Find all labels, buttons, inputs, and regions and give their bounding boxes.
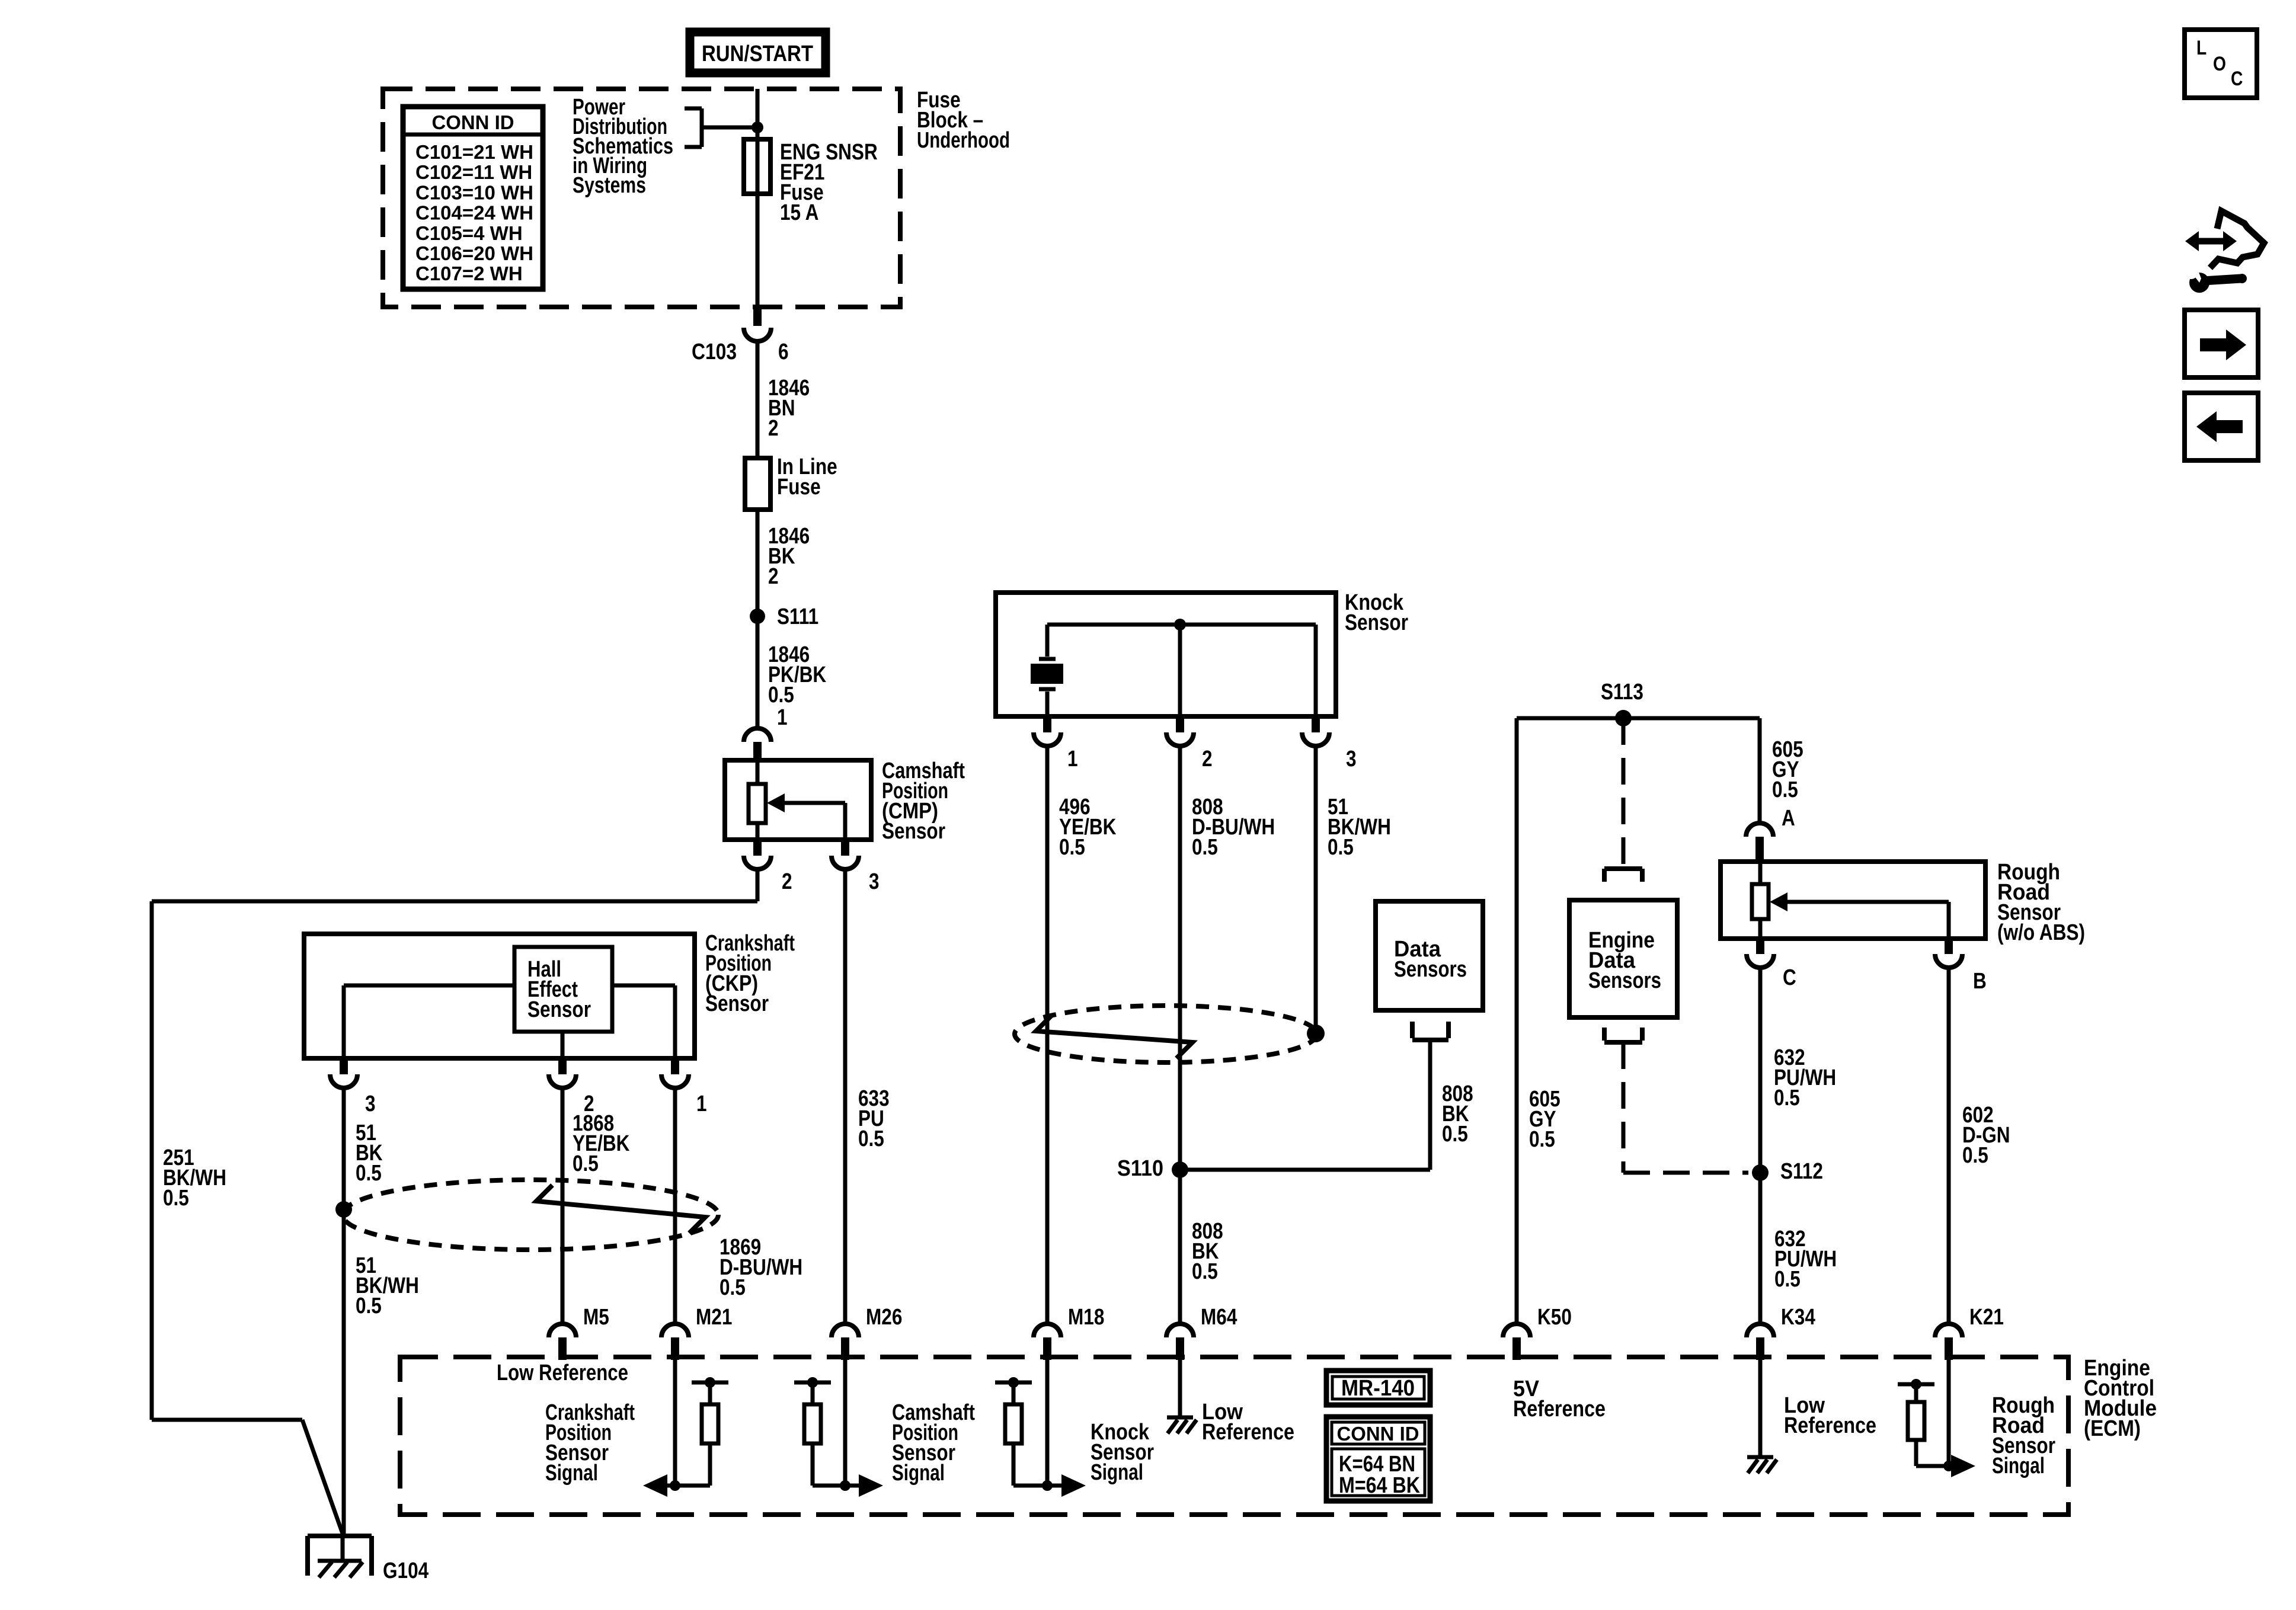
rough road wiper arrow	[1770, 892, 1787, 911]
svg-text:(ECM): (ECM)	[2084, 1416, 2141, 1441]
knock sensor internal bus	[1047, 623, 1316, 627]
CMP internal resistor	[756, 760, 760, 784]
service icon double arrow	[2198, 238, 2224, 245]
svg-text:Reference: Reference	[1202, 1420, 1294, 1445]
M64 low reference ground	[1178, 1360, 1182, 1416]
next-page arrow box	[2185, 310, 2258, 377]
svg-text:2: 2	[768, 416, 779, 441]
svg-text:2: 2	[782, 869, 792, 894]
dashed run to S112	[1622, 1042, 1626, 1173]
svg-text:K50: K50	[1537, 1305, 1572, 1330]
svg-text:M26: M26	[866, 1305, 902, 1330]
svg-text:2: 2	[768, 564, 779, 589]
connector rough road pin B	[1945, 939, 1953, 954]
svg-text:RUN/START: RUN/START	[702, 41, 813, 66]
svg-text:0.5: 0.5	[1774, 1267, 1801, 1292]
connector CMP pin 1	[744, 728, 771, 742]
svg-text:K21: K21	[1969, 1305, 2004, 1330]
svg-text:Signal: Signal	[1091, 1460, 1143, 1485]
twisted pair ellipse (CKP wires)	[343, 1180, 718, 1250]
hall effect sensor box	[514, 947, 612, 1032]
connector CKP pin 2	[558, 1058, 567, 1074]
svg-text:CONN ID: CONN ID	[432, 111, 514, 133]
fuse ENG SNSR EF21 15A	[744, 139, 770, 194]
connector bracket below engine data sensors box	[1602, 1028, 1607, 1041]
svg-text:Reference: Reference	[1784, 1413, 1876, 1438]
wire 602 D-GN (B to K21)	[1947, 968, 1951, 1324]
connector rough road pin C	[1756, 939, 1764, 954]
wire 632 PU/WH (C to K34)	[1758, 968, 1763, 1324]
svg-text:0.5: 0.5	[1772, 777, 1798, 802]
svg-text:3: 3	[365, 1092, 376, 1116]
twist symbol (CKP)	[536, 1185, 705, 1233]
svg-text:0.5: 0.5	[1192, 1259, 1218, 1284]
piezo element (knock sensor)	[1039, 657, 1056, 661]
service icon wrench	[2189, 273, 2209, 293]
CONN ID table (fuse block)	[403, 107, 543, 289]
svg-text:C101=21 WH: C101=21 WH	[415, 141, 533, 163]
svg-text:CONN ID: CONN ID	[1337, 1423, 1419, 1445]
node: junction dot on feed wire	[752, 121, 763, 133]
svg-text:Sensors: Sensors	[1588, 968, 1661, 993]
svg-text:2: 2	[1202, 747, 1213, 772]
svg-text:Singal: Singal	[1992, 1454, 2045, 1478]
crankshaft position sensor box	[304, 934, 695, 1058]
svg-text:0.5: 0.5	[1529, 1127, 1555, 1152]
svg-text:C107=2 WH: C107=2 WH	[415, 263, 523, 284]
svg-text:C103: C103	[692, 340, 737, 364]
svg-text:M21: M21	[696, 1305, 732, 1330]
svg-text:0.5: 0.5	[356, 1161, 382, 1186]
camshaft signal arrow	[843, 1360, 848, 1486]
svg-text:Low Reference: Low Reference	[497, 1361, 628, 1385]
wire S110 to data sensors	[1180, 1168, 1430, 1172]
svg-text:0.5: 0.5	[1962, 1143, 1988, 1168]
ECM CONN ID box	[1326, 1417, 1430, 1501]
svg-text:0.5: 0.5	[356, 1294, 382, 1318]
svg-text:Signal: Signal	[545, 1461, 598, 1486]
crankshaft signal pull-up resistor	[705, 1377, 715, 1388]
svg-text:C106=20 WH: C106=20 WH	[415, 242, 533, 264]
CMP internal wiper arrow	[767, 793, 785, 812]
crankshaft signal arrow	[673, 1360, 677, 1486]
fuse block dashed box (Fuse Block - Underhood)	[383, 89, 900, 307]
svg-text:Sensor: Sensor	[1345, 610, 1408, 635]
svg-text:0.5: 0.5	[573, 1151, 599, 1176]
svg-text:B: B	[1973, 969, 1987, 994]
svg-text:M18: M18	[1068, 1305, 1104, 1330]
wire 5V reference bus (S113)	[1517, 716, 1760, 721]
svg-text:M64: M64	[1201, 1305, 1237, 1330]
connector ECM pin M5	[549, 1324, 576, 1337]
wire 496 YE/BK (knock pin1 to M18)	[1045, 746, 1050, 1324]
camshaft position sensor box	[725, 760, 871, 840]
svg-text:M=64 BK: M=64 BK	[1339, 1473, 1420, 1498]
svg-text:3: 3	[1346, 747, 1357, 772]
svg-text:C102=11 WH: C102=11 WH	[415, 161, 532, 183]
rough road signal pull-up resistor	[1911, 1379, 1921, 1390]
connector ECM pin K50	[1503, 1324, 1530, 1337]
svg-text:S112: S112	[1780, 1159, 1823, 1184]
svg-text:S113: S113	[1601, 680, 1643, 705]
connector ECM pin M18	[1034, 1324, 1061, 1337]
svg-text:Sensor: Sensor	[705, 991, 769, 1016]
LOC legend box	[2185, 30, 2257, 98]
svg-text:0.5: 0.5	[1442, 1122, 1468, 1147]
svg-text:0.5: 0.5	[858, 1126, 884, 1151]
twist symbol (knock)	[1036, 1015, 1192, 1058]
svg-text:0.5: 0.5	[1059, 835, 1085, 860]
connector ECM pin M26	[832, 1324, 859, 1337]
reference bracket to Power Distribution Schematics	[685, 107, 702, 111]
rough road signal arrow	[1947, 1360, 1951, 1466]
svg-text:Fuse: Fuse	[777, 475, 821, 500]
svg-text:1: 1	[1067, 747, 1078, 772]
svg-text:M5: M5	[583, 1305, 609, 1330]
svg-text:15 A: 15 A	[780, 200, 818, 225]
service icon outline	[2210, 211, 2264, 268]
svg-text:0.5: 0.5	[1774, 1086, 1800, 1110]
connector bracket above engine data sensors box	[1604, 866, 1642, 871]
svg-text:O: O	[2213, 53, 2226, 75]
connector CMP pin 2	[753, 840, 762, 856]
prev-page arrow box	[2185, 393, 2258, 460]
svg-text:S110: S110	[1117, 1156, 1163, 1181]
wire 51 BK (CKP pin3 down)	[342, 1088, 346, 1534]
connector knock pin 3	[1312, 716, 1320, 732]
svg-text:A: A	[1782, 806, 1795, 831]
connector knock pin 1	[1043, 716, 1051, 732]
rough road sensor box	[1721, 862, 1985, 939]
svg-text:1: 1	[777, 705, 788, 730]
svg-text:Underhood: Underhood	[917, 128, 1010, 153]
connector knock pin 2	[1176, 716, 1184, 732]
CKP internal wires	[344, 984, 514, 988]
data sensors box	[1376, 901, 1483, 1010]
node: shield tie dot	[1307, 1025, 1325, 1042]
ground G104 bracket	[308, 1534, 372, 1538]
K34 low reference ground	[1758, 1360, 1763, 1456]
rough road internal resistor	[1758, 862, 1763, 884]
svg-text:C: C	[1783, 965, 1796, 990]
splice S111	[750, 609, 765, 624]
connector rough road pin A	[1746, 823, 1773, 837]
svg-text:0.5: 0.5	[720, 1275, 746, 1300]
knock signal pull-up resistor	[1008, 1377, 1019, 1388]
node: splice dot on ground wire	[335, 1201, 352, 1218]
svg-text:6: 6	[778, 340, 789, 364]
wire CMP pin2 ground run (to G104)	[756, 869, 760, 901]
svg-text:C104=24 WH: C104=24 WH	[415, 202, 533, 224]
svg-text:G104: G104	[383, 1558, 428, 1583]
svg-text:Sensor: Sensor	[882, 819, 945, 844]
connector CMP pin 3	[841, 840, 849, 856]
engine control module dashed box	[400, 1357, 2068, 1515]
svg-text:1: 1	[696, 1092, 707, 1116]
svg-text:Sensors: Sensors	[1394, 957, 1467, 982]
wire: RUN/START feed down through fuse block	[756, 89, 760, 307]
svg-text:Sensor: Sensor	[527, 997, 591, 1022]
connector C103 pin 6	[753, 307, 762, 326]
connector CKP pin 1	[671, 1058, 679, 1074]
splice S113	[1615, 710, 1632, 726]
svg-text:3: 3	[869, 869, 880, 894]
MR-140 box	[1326, 1371, 1430, 1405]
connector ECM pin K34	[1747, 1324, 1774, 1337]
svg-text:(w/o ABS): (w/o ABS)	[1997, 920, 2085, 945]
wire 633 PU (CMP pin3 to M26)	[843, 869, 848, 1324]
wire 808 D-BU/WH (knock pin2 to M64)	[1178, 746, 1182, 1324]
svg-text:L: L	[2196, 37, 2207, 59]
wire 1846 BN 2	[756, 341, 760, 458]
splice S112	[1752, 1164, 1769, 1181]
svg-text:0.5: 0.5	[163, 1186, 189, 1211]
svg-text:MR-140: MR-140	[1341, 1376, 1415, 1401]
knock sensor box	[996, 593, 1336, 716]
connector CKP pin 3	[340, 1058, 348, 1074]
svg-text:0.5: 0.5	[1328, 835, 1354, 860]
in-line fuse	[745, 458, 770, 510]
svg-text:0.5: 0.5	[768, 683, 794, 708]
svg-text:Signal: Signal	[892, 1461, 945, 1486]
wire 1869 D-BU/WH (CKP pin1 to M21)	[673, 1088, 677, 1324]
svg-text:K34: K34	[1781, 1305, 1815, 1330]
connector ECM pin M21	[661, 1324, 689, 1337]
wire 605 GY (to rough road A)	[1758, 718, 1762, 823]
svg-text:C: C	[2231, 68, 2243, 90]
svg-text:0.5: 0.5	[1192, 835, 1218, 860]
shield ellipse (knock wires)	[1015, 1006, 1317, 1062]
knock signal arrow	[1045, 1360, 1050, 1486]
svg-text:Systems: Systems	[573, 173, 646, 198]
wire 51 BK/WH shield drain (knock pin3)	[1314, 746, 1318, 1030]
dashed tap to engine data sensors	[1622, 718, 1626, 869]
wire 605 GY (to K50)	[1515, 718, 1519, 1324]
splice S110	[1172, 1161, 1188, 1178]
ground G104 chassis symbol	[341, 1534, 345, 1561]
node: internal junction	[1174, 619, 1186, 630]
svg-text:C103=10 WH: C103=10 WH	[415, 181, 533, 203]
wire 1868 YE/BK (CKP pin2 to M5)	[561, 1088, 565, 1324]
svg-text:Reference: Reference	[1513, 1397, 1606, 1422]
RUN/START hot-in-run feed box	[690, 32, 826, 73]
connector ECM pin K21	[1935, 1324, 1962, 1337]
camshaft signal pull-up resistor	[807, 1377, 818, 1388]
connector bracket below data sensors box	[1410, 1022, 1415, 1038]
svg-text:C105=4 WH: C105=4 WH	[415, 222, 523, 244]
svg-text:S111: S111	[777, 604, 818, 629]
engine data sensors box	[1569, 900, 1677, 1017]
connector ECM pin M64	[1166, 1324, 1194, 1337]
